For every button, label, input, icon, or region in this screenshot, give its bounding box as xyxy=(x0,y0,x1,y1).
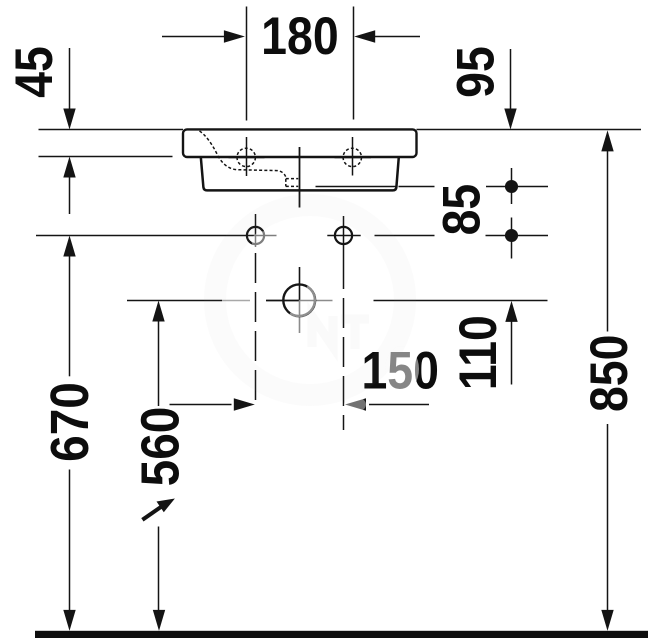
svg-text:180: 180 xyxy=(261,6,339,65)
svg-text:560: 560 xyxy=(130,407,190,487)
svg-text:45: 45 xyxy=(4,46,63,98)
svg-text:670: 670 xyxy=(39,382,99,462)
svg-text:95: 95 xyxy=(446,46,505,98)
svg-text:85: 85 xyxy=(432,184,491,236)
svg-text:110: 110 xyxy=(448,315,507,390)
svg-text:850: 850 xyxy=(579,335,638,413)
